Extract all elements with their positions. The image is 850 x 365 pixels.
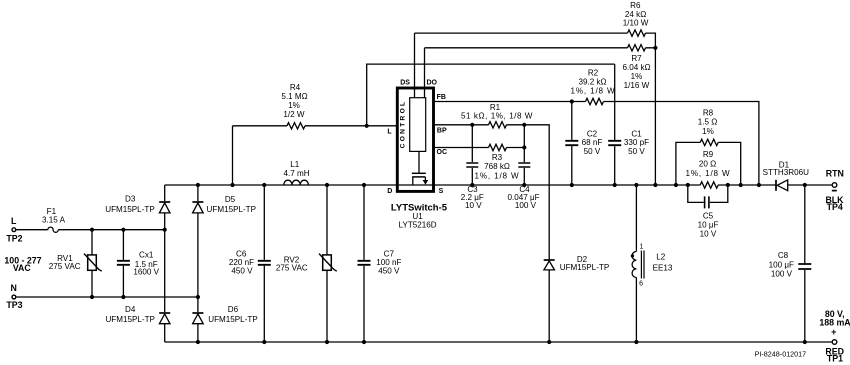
RTN minus mark <box>832 190 837 192</box>
svg-text:1/2 W: 1/2 W <box>283 110 305 119</box>
junction R6R7 rail <box>653 183 657 187</box>
svg-text:39.2 kΩ: 39.2 kΩ <box>578 78 606 87</box>
svg-text:6: 6 <box>639 281 643 288</box>
wire L line after fuse <box>58 229 164 231</box>
diode D6 <box>192 312 203 314</box>
U1 mosfet gate bar <box>412 172 426 174</box>
diode D1 <box>775 180 777 191</box>
junction C7 top <box>362 183 366 187</box>
svg-text:D3: D3 <box>125 195 136 204</box>
svg-text:DS: DS <box>400 80 410 87</box>
svg-text:1%, 1/8 W: 1%, 1/8 W <box>686 169 731 178</box>
svg-text:L2: L2 <box>656 252 666 261</box>
svg-text:N: N <box>11 283 17 293</box>
terminal TP1 <box>832 340 837 345</box>
svg-text:1/16 W: 1/16 W <box>624 81 650 90</box>
svg-text:R4: R4 <box>290 83 301 92</box>
svg-text:C5: C5 <box>703 211 714 220</box>
junction OC / C4 <box>522 145 526 149</box>
junction C6 bottom <box>262 340 266 344</box>
resistor R7 <box>628 45 646 51</box>
junction D6 bottom rail <box>196 340 200 344</box>
varistor RV2 <box>323 255 332 270</box>
junction D3 anode / L line <box>163 228 167 232</box>
resistor R2 <box>586 98 604 104</box>
svg-text:R3: R3 <box>492 153 503 162</box>
diode D3 <box>159 201 170 203</box>
junction BP / C3 <box>470 123 474 127</box>
svg-text:5.1 MΩ: 5.1 MΩ <box>281 92 307 101</box>
wire bottom return rail <box>165 341 832 343</box>
svg-text:F1: F1 <box>47 207 57 216</box>
terminal TP3 <box>12 295 16 299</box>
svg-text:STTH3R06U: STTH3R06U <box>763 168 809 177</box>
inductor L1 <box>284 180 309 185</box>
junction C5 left rail <box>686 183 690 187</box>
wire DS top line <box>415 33 656 48</box>
wire DO pin riser <box>424 48 426 98</box>
wire D4 column <box>164 324 166 342</box>
junction L2 top rail <box>634 183 638 187</box>
junction C8 top rail <box>803 183 807 187</box>
svg-text:C8: C8 <box>778 251 789 260</box>
svg-text:10 μF: 10 μF <box>698 220 719 229</box>
junction R8 left rail <box>674 183 678 187</box>
svg-text:+: + <box>831 327 836 337</box>
svg-text:CONTROL: CONTROL <box>399 100 406 149</box>
junction D2 bottom rail <box>547 340 551 344</box>
svg-text:51 kΩ, 1%, 1/8 W: 51 kΩ, 1%, 1/8 W <box>461 112 533 121</box>
svg-text:EE13: EE13 <box>653 264 673 273</box>
svg-text:1%, 1/8 W: 1%, 1/8 W <box>475 171 520 180</box>
junction N line / D5 column <box>196 295 200 299</box>
wire N input line <box>16 296 198 298</box>
svg-text:OC: OC <box>437 149 448 156</box>
svg-text:1600 V: 1600 V <box>133 268 159 277</box>
capacitor C5 <box>705 196 709 208</box>
svg-text:DO: DO <box>426 80 437 87</box>
capacitor C7 wire <box>363 185 365 342</box>
svg-text:275 VAC: 275 VAC <box>49 262 81 271</box>
junction RV2 bottom <box>325 340 329 344</box>
fuse F1 <box>48 227 58 232</box>
wire DS pin riser <box>414 33 416 98</box>
svg-text:275 VAC: 275 VAC <box>276 263 308 272</box>
junction C5 right rail <box>726 183 730 187</box>
terminal TP2 <box>12 228 16 232</box>
wire main top rail through U1 <box>165 184 701 186</box>
junction C3 rail <box>470 183 474 187</box>
svg-text:BP: BP <box>437 128 447 135</box>
junction FB drop rail <box>757 183 761 187</box>
svg-text:1%: 1% <box>702 127 714 136</box>
junction Cx1 top <box>121 228 125 232</box>
svg-text:L1: L1 <box>290 160 300 169</box>
wire R4 column <box>232 126 234 185</box>
svg-text:UFM15PL-TP: UFM15PL-TP <box>207 205 256 214</box>
svg-text:TP2: TP2 <box>6 233 22 243</box>
inductor L2 core <box>641 251 644 279</box>
svg-text:R7: R7 <box>631 54 642 63</box>
capacitor C7 <box>358 261 371 265</box>
capacitor C4 <box>518 163 530 167</box>
U1 mosfet channel bar <box>412 176 425 178</box>
resistor R9 <box>700 182 718 188</box>
junction FB / C2 <box>570 99 574 103</box>
capacitor C3 <box>466 163 478 167</box>
U1 control block <box>410 98 426 152</box>
svg-text:UFM15PL-TP: UFM15PL-TP <box>560 263 609 272</box>
svg-text:3.15 A: 3.15 A <box>42 216 66 225</box>
wire C5 loop <box>688 185 728 202</box>
svg-text:L: L <box>387 129 392 136</box>
junction L2 bottom rail <box>634 340 638 344</box>
op-amp U1 LYTSwitch-5 outline <box>397 88 433 191</box>
junction C1 rail <box>613 183 617 187</box>
svg-text:D: D <box>387 188 392 195</box>
terminal RTN/TP4 <box>832 183 837 188</box>
svg-text:UFM15PL-TP: UFM15PL-TP <box>208 315 257 324</box>
resistor R4 <box>287 123 305 129</box>
U1 mosfet gate stem <box>418 151 420 172</box>
svg-text:50 V: 50 V <box>584 147 601 156</box>
junction R4 / L-pin node <box>365 124 369 128</box>
junction D5 rail <box>196 183 200 187</box>
varistor RV1 <box>88 255 97 270</box>
wire D5 column <box>197 185 199 312</box>
U1 mosfet source arrow <box>423 180 429 185</box>
junction C4 rail <box>522 183 526 187</box>
wire BP line <box>434 125 550 259</box>
svg-text:20 Ω: 20 Ω <box>699 160 716 169</box>
capacitor C6 <box>258 261 271 265</box>
junction RV2 top <box>325 183 329 187</box>
svg-text:1%: 1% <box>288 101 300 110</box>
junction C8 bottom rail <box>803 340 807 344</box>
svg-text:6.04 kΩ: 6.04 kΩ <box>622 63 650 72</box>
capacitor Cx1 wire <box>122 230 124 297</box>
diode D5 <box>192 201 203 203</box>
svg-text:1: 1 <box>640 243 644 250</box>
capacitor C8 wire <box>804 185 806 342</box>
resistor R8 <box>700 139 718 145</box>
svg-text:1.5 Ω: 1.5 Ω <box>698 118 718 127</box>
svg-text:768 kΩ: 768 kΩ <box>484 162 510 171</box>
diode D4 <box>159 312 170 314</box>
capacitor C8 <box>798 264 811 269</box>
svg-text:10 V: 10 V <box>700 229 717 238</box>
wire R6R7 drop to rail <box>654 48 656 185</box>
svg-text:450 V: 450 V <box>378 267 400 276</box>
wire FB line <box>434 102 759 186</box>
svg-text:1%: 1% <box>631 72 643 81</box>
junction R8 right rail <box>739 183 743 187</box>
capacitor C2 wire <box>571 102 573 186</box>
resistor R1 <box>489 122 507 128</box>
capacitor C4 wire <box>523 125 525 185</box>
wire L input line <box>16 229 48 231</box>
svg-text:D4: D4 <box>125 305 136 314</box>
svg-text:1/10 W: 1/10 W <box>623 18 649 27</box>
wire OC line <box>434 147 525 149</box>
junction C6 top <box>262 183 266 187</box>
inductor L2 winding <box>632 252 636 278</box>
svg-text:D5: D5 <box>225 195 236 204</box>
capacitor C1 <box>608 141 621 145</box>
wire R4 line <box>233 125 398 127</box>
svg-text:RTN: RTN <box>826 168 844 178</box>
svg-text:VAC: VAC <box>13 263 32 273</box>
svg-text:4.7 mH: 4.7 mH <box>283 169 309 178</box>
junction R4 column rail <box>230 183 234 187</box>
U1 mosfet legs <box>413 177 426 185</box>
wire rail D1 to RTN <box>788 184 832 186</box>
svg-text:PI-8248-012017: PI-8248-012017 <box>755 350 807 359</box>
svg-text:TP1: TP1 <box>827 353 843 363</box>
wire R8 loop <box>676 142 741 185</box>
svg-text:L: L <box>11 216 17 226</box>
wire DO line <box>425 47 656 49</box>
svg-text:S: S <box>439 188 444 195</box>
svg-text:UFM15PL-TP: UFM15PL-TP <box>105 315 154 324</box>
svg-text:50 V: 50 V <box>628 147 645 156</box>
varistor RV2 wire <box>326 185 328 342</box>
capacitor C1 wire <box>614 64 616 185</box>
svg-text:R2: R2 <box>588 69 599 78</box>
junction C2 rail <box>570 183 574 187</box>
wire L-node riser <box>367 64 615 126</box>
junction RV1 bottom <box>90 295 94 299</box>
svg-text:1%, 1/8 W: 1%, 1/8 W <box>571 87 616 96</box>
svg-text:100 V: 100 V <box>771 270 793 279</box>
svg-text:D6: D6 <box>228 305 239 314</box>
diode D2 <box>544 259 555 261</box>
svg-text:TP4: TP4 <box>827 202 843 212</box>
svg-text:100 μF: 100 μF <box>769 260 794 269</box>
svg-text:100 V: 100 V <box>515 201 537 210</box>
wire L2 column <box>635 185 637 342</box>
resistor R6 <box>628 30 646 36</box>
L2 phase dot <box>631 254 634 257</box>
resistor R3 <box>489 144 507 150</box>
capacitor C2 <box>565 141 578 145</box>
svg-text:Cx1: Cx1 <box>139 250 154 259</box>
wire D6 column <box>197 324 199 342</box>
capacitor Cx1 <box>117 261 130 265</box>
svg-text:LYT5216D: LYT5216D <box>399 220 437 229</box>
junction BP / C4 <box>522 123 526 127</box>
capacitor C6 wire <box>263 185 265 342</box>
capacitor C3 wire <box>471 125 473 185</box>
junction C7 bottom <box>362 340 366 344</box>
wire D2 column <box>548 259 550 342</box>
svg-text:R9: R9 <box>703 150 714 159</box>
svg-text:450 V: 450 V <box>231 267 253 276</box>
junction Cx1 bottom <box>121 295 125 299</box>
junction R6/R7 node <box>653 46 657 50</box>
svg-text:R8: R8 <box>703 108 714 117</box>
wire D3 column <box>164 185 166 312</box>
svg-text:10 V: 10 V <box>465 201 482 210</box>
svg-text:FB: FB <box>437 94 446 101</box>
wire main rail right of R9 <box>718 184 776 186</box>
junction RV1 top <box>90 228 94 232</box>
svg-text:TP3: TP3 <box>6 300 22 310</box>
svg-text:UFM15PL-TP: UFM15PL-TP <box>105 205 154 214</box>
varistor RV1 wire <box>91 230 93 297</box>
